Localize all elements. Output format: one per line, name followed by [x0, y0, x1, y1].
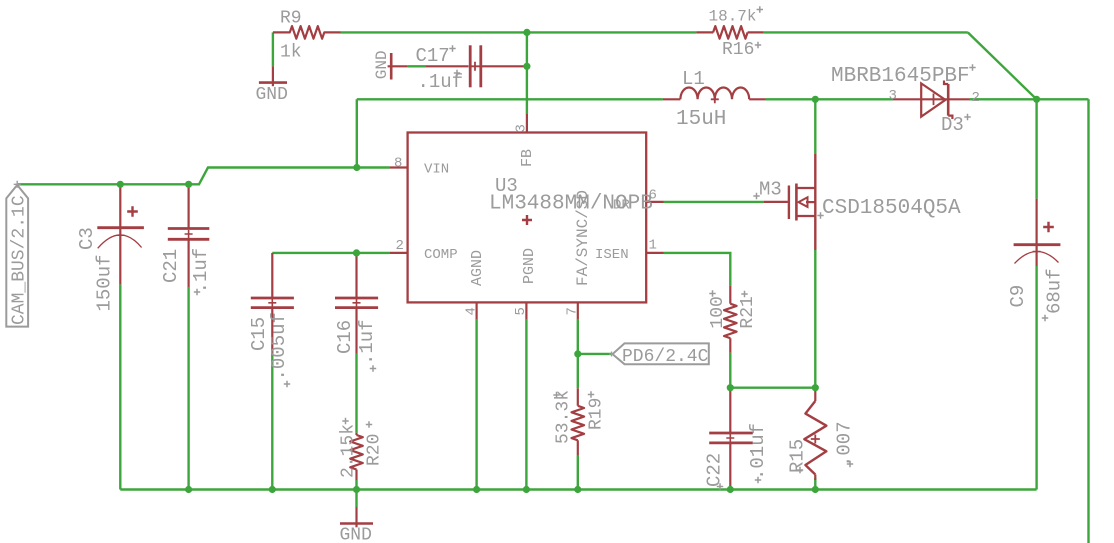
svg-text:PD6/2.4C: PD6/2.4C — [622, 347, 709, 367]
svg-text:150uf: 150uf — [94, 254, 116, 311]
svg-text:7: 7 — [565, 307, 581, 315]
svg-text:100: 100 — [708, 296, 728, 328]
svg-text:3: 3 — [889, 88, 897, 104]
svg-text:C15: C15 — [248, 317, 270, 351]
svg-text:.01uf: .01uf — [747, 423, 769, 480]
svg-text:15uH: 15uH — [676, 108, 726, 131]
svg-text:R21: R21 — [738, 296, 758, 328]
svg-text:C16: C16 — [334, 320, 356, 354]
svg-text:M3: M3 — [759, 179, 782, 201]
svg-text:2: 2 — [972, 90, 980, 106]
svg-text:C17: C17 — [416, 45, 450, 67]
svg-text:FA/SYNC/SD: FA/SYNC/SD — [574, 190, 592, 286]
svg-text:C22: C22 — [704, 453, 726, 487]
svg-text:GND: GND — [373, 50, 391, 79]
svg-text:R9: R9 — [280, 9, 302, 29]
svg-text:18.7k: 18.7k — [709, 8, 757, 26]
svg-text:D3: D3 — [941, 114, 964, 136]
svg-text:68uf: 68uf — [1044, 268, 1066, 314]
svg-text:C21: C21 — [160, 249, 182, 283]
svg-text:C3: C3 — [76, 227, 98, 250]
svg-text:VIN: VIN — [424, 161, 449, 177]
svg-text:DR: DR — [613, 198, 630, 214]
svg-text:5: 5 — [513, 307, 529, 315]
svg-text:8: 8 — [394, 155, 402, 171]
svg-text:FB: FB — [519, 149, 536, 167]
svg-text:COMP: COMP — [424, 247, 458, 263]
svg-text:ISEN: ISEN — [595, 247, 629, 263]
svg-text:GND: GND — [256, 85, 288, 105]
svg-text:.005uf: .005uf — [268, 312, 290, 380]
svg-text:2.15k: 2.15k — [339, 424, 359, 478]
svg-text:GND: GND — [340, 526, 372, 543]
svg-text:4: 4 — [464, 307, 480, 315]
svg-text:MBRB1645PBF: MBRB1645PBF — [831, 65, 970, 88]
svg-text:C9: C9 — [1007, 285, 1029, 308]
svg-text:CAM_BUS/2.1C: CAM_BUS/2.1C — [10, 195, 30, 325]
svg-text:3: 3 — [514, 124, 530, 132]
svg-text:2: 2 — [396, 238, 404, 254]
svg-text:1: 1 — [649, 238, 657, 254]
svg-text:R15: R15 — [787, 439, 809, 473]
svg-text:6: 6 — [649, 188, 657, 204]
svg-text:R20: R20 — [365, 434, 385, 466]
svg-text:CSD18504Q5A: CSD18504Q5A — [822, 197, 961, 220]
svg-text:R16: R16 — [722, 40, 754, 60]
svg-text:AGND: AGND — [469, 250, 486, 286]
svg-text:.1uf: .1uf — [190, 248, 212, 294]
svg-text:.1uf: .1uf — [356, 319, 378, 365]
svg-text:R19: R19 — [587, 398, 607, 430]
svg-text:PGND: PGND — [521, 248, 538, 284]
svg-text:.007: .007 — [834, 421, 856, 467]
svg-text:1k: 1k — [280, 43, 302, 63]
svg-text:L1: L1 — [682, 68, 705, 90]
